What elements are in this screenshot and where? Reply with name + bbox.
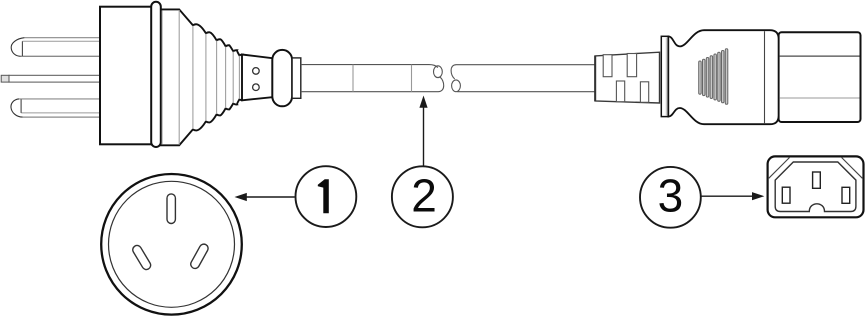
inlet face pin N slot bbox=[842, 187, 850, 203]
strain relief slot 1 (top) bbox=[603, 55, 612, 77]
strain relief slot 2 (bottom) bbox=[616, 81, 624, 102]
connector J1 strain relief bbox=[595, 52, 660, 103]
callout balloon 1 bbox=[296, 166, 357, 227]
plug P1 body bbox=[100, 7, 153, 145]
connector J1 head bbox=[779, 32, 861, 122]
plug face left slot bbox=[131, 244, 152, 271]
callout balloon 3 bbox=[640, 167, 701, 228]
callout balloon 2 bbox=[392, 166, 453, 227]
strain relief slot 4 (bottom) bbox=[640, 82, 648, 103]
cable W1 right segment bbox=[451, 65, 595, 92]
plug P1 cable bushing bbox=[292, 58, 301, 98]
plug face front view inner rim bbox=[109, 181, 235, 307]
plug face right slot bbox=[189, 243, 209, 270]
connector J1 body bbox=[668, 30, 778, 124]
plug P1 strain-relief cone bbox=[157, 9, 243, 145]
inlet face pin E slot bbox=[813, 172, 821, 188]
plug P1 ring bbox=[151, 2, 161, 147]
inlet face chamfer top-left bbox=[769, 158, 790, 179]
strain relief slot 3 (top) bbox=[627, 54, 636, 77]
plug face earth slot bbox=[167, 194, 175, 224]
leader arrow 1 bbox=[235, 193, 295, 201]
leader arrow 2 bbox=[419, 96, 427, 166]
inlet face front view shell bbox=[768, 156, 864, 217]
cable W1 divider marks bbox=[352, 65, 354, 92]
svg-text:3: 3 bbox=[658, 170, 684, 222]
inlet face recess outline bbox=[775, 162, 856, 212]
plug P1 top pin bbox=[11, 38, 101, 57]
plug P1 neck bbox=[242, 55, 273, 101]
plug face front view outer rim bbox=[101, 174, 242, 315]
connector J1 flange bbox=[661, 36, 668, 116]
inlet face chamfer top-right bbox=[842, 158, 863, 179]
plug P1 collar bbox=[272, 50, 292, 106]
inlet face pin L slot bbox=[782, 187, 790, 203]
svg-text:2: 2 bbox=[411, 170, 437, 222]
connector J1 grip ribs bbox=[699, 49, 728, 105]
plug P1 middle pin bbox=[1, 75, 101, 82]
cable W1 left segment bbox=[301, 65, 444, 92]
leader arrow 3 bbox=[701, 192, 764, 200]
plug P1 bottom pin bbox=[11, 99, 101, 117]
